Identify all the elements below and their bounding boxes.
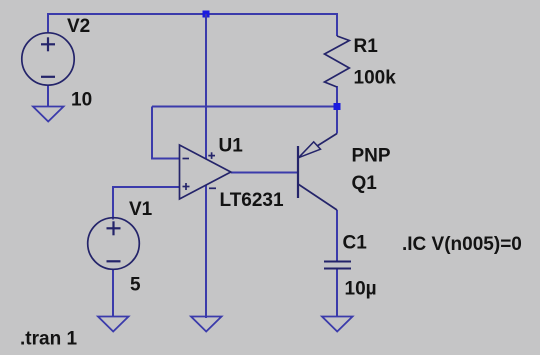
svg-text:100k: 100k <box>354 68 397 89</box>
wire top rail junction to R1 <box>206 14 337 36</box>
svg-text:PNP: PNP <box>352 146 391 167</box>
wire V1 to ground <box>112 269 114 317</box>
node junction top rail <box>203 11 210 18</box>
svg-text:Q1: Q1 <box>352 173 378 194</box>
wire top rail V2 to junction <box>48 14 206 33</box>
wire V2 to ground <box>47 85 49 107</box>
ground below op-amp <box>191 317 222 332</box>
capacitor C1 <box>324 262 351 269</box>
ground below V2 <box>33 107 64 122</box>
svg-text:.IC V(n005)=0: .IC V(n005)=0 <box>402 234 522 255</box>
wire feedback vertical to inverting input <box>152 107 180 159</box>
node junction emitter/R1/feedback <box>334 103 341 110</box>
ground below C1 <box>322 317 353 332</box>
wire R1 bottom to emitter <box>336 86 338 134</box>
ground below V1 <box>98 317 129 332</box>
wire collector to C1 <box>336 210 338 262</box>
wire V1 to non-inverting input <box>113 187 180 220</box>
wire op-amp output to base <box>231 172 298 174</box>
svg-text:5: 5 <box>130 275 141 296</box>
svg-text:10µ: 10µ <box>345 279 377 300</box>
transistor Q1 base bar <box>297 146 299 198</box>
voltage source V2 <box>22 33 74 85</box>
svg-text:U1: U1 <box>219 136 244 157</box>
svg-text:V2: V2 <box>67 16 90 37</box>
svg-text:V1: V1 <box>129 199 153 220</box>
transistor Q1 collector <box>298 184 337 210</box>
svg-text:10: 10 <box>71 90 92 111</box>
resistor R1 <box>325 36 350 87</box>
transistor Q1 emitter <box>298 134 337 159</box>
wire op-amp V- supply to ground <box>205 185 207 318</box>
svg-text:C1: C1 <box>343 233 368 254</box>
svg-text:R1: R1 <box>354 36 379 57</box>
wire op-amp V+ supply <box>205 14 207 159</box>
op-amp U1 triangle <box>180 145 231 199</box>
wire C1 to ground <box>336 269 338 318</box>
svg-text:LT6231: LT6231 <box>220 190 285 211</box>
voltage source V1 <box>88 218 140 270</box>
transistor Q1 emitter arrow <box>299 142 321 158</box>
svg-text:.tran 1: .tran 1 <box>20 329 77 350</box>
wire feedback horizontal <box>152 106 337 108</box>
